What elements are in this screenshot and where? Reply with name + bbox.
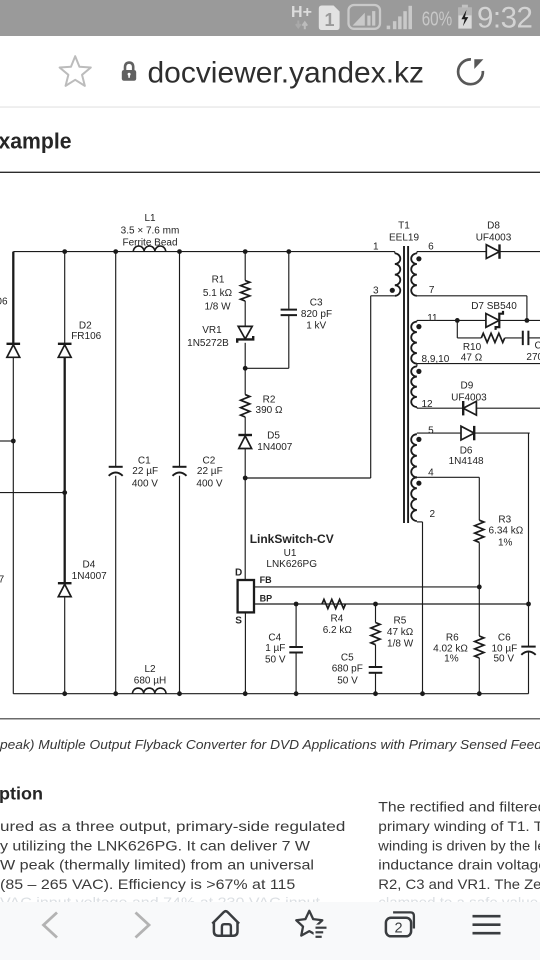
- svg-text:inductance drain voltage: inductance drain voltage: [378, 857, 540, 873]
- svg-text:1: 1: [324, 10, 334, 30]
- svg-text:docviewer.yandex.kz: docviewer.yandex.kz: [148, 57, 425, 90]
- svg-text:1/8 W: 1/8 W: [204, 302, 231, 313]
- svg-text:1: 1: [373, 241, 379, 252]
- svg-text:EEL19: EEL19: [389, 233, 419, 244]
- svg-text:3: 3: [373, 286, 379, 297]
- svg-text:C5: C5: [341, 653, 354, 664]
- svg-text:L2: L2: [144, 664, 156, 675]
- svg-text:1N4007: 1N4007: [257, 442, 292, 453]
- svg-text:U1: U1: [284, 548, 297, 559]
- svg-text:6.34 kΩ: 6.34 kΩ: [489, 526, 524, 537]
- svg-text:1%: 1%: [444, 654, 459, 665]
- svg-text:680 µH: 680 µH: [134, 676, 166, 687]
- svg-text:1/8 W: 1/8 W: [387, 639, 414, 650]
- svg-text:50 V: 50 V: [265, 654, 286, 665]
- svg-text:R2, C3 and VR1. The Zener: R2, C3 and VR1. The Zener: [378, 876, 540, 892]
- svg-text:1 kV: 1 kV: [306, 321, 326, 332]
- svg-text:1%: 1%: [498, 538, 513, 549]
- svg-text:T1: T1: [398, 220, 410, 231]
- svg-text:12: 12: [421, 399, 433, 410]
- svg-text:ption: ption: [0, 784, 43, 804]
- svg-text:R6: R6: [446, 633, 459, 644]
- svg-text:FR106: FR106: [71, 331, 101, 342]
- svg-text:BP: BP: [260, 594, 273, 604]
- svg-text:3.5 × 7.6 mm: 3.5 × 7.6 mm: [121, 225, 180, 236]
- svg-text:7: 7: [429, 285, 435, 296]
- svg-text:11: 11: [427, 313, 438, 324]
- svg-text:D6: D6: [460, 445, 473, 456]
- svg-text:H+: H+: [291, 4, 312, 21]
- svg-text:R5: R5: [394, 615, 407, 626]
- svg-text:680 pF: 680 pF: [332, 664, 363, 675]
- svg-text:R3: R3: [498, 515, 511, 526]
- svg-text:5.1 kΩ: 5.1 kΩ: [203, 288, 233, 299]
- svg-text:2: 2: [394, 920, 402, 936]
- svg-text:50 V: 50 V: [337, 675, 358, 686]
- svg-text:D9: D9: [461, 380, 474, 391]
- svg-text:6.2 kΩ: 6.2 kΩ: [323, 625, 353, 636]
- svg-text:S: S: [235, 615, 242, 626]
- svg-text:D7 SB540: D7 SB540: [471, 301, 517, 312]
- svg-text:R4: R4: [331, 614, 344, 625]
- svg-text:D2: D2: [79, 321, 92, 332]
- svg-text:C7: C7: [535, 340, 540, 351]
- svg-text:5: 5: [428, 425, 434, 436]
- svg-text:FR106: FR106: [0, 297, 8, 308]
- svg-text:primary winding of T1. The: primary winding of T1. The: [378, 818, 540, 834]
- svg-text:L1: L1: [144, 213, 156, 224]
- svg-text:xample: xample: [0, 128, 72, 153]
- svg-text:VR1: VR1: [202, 325, 222, 336]
- svg-text:9:32: 9:32: [477, 2, 532, 35]
- svg-text:D: D: [235, 567, 242, 578]
- svg-text:400 V: 400 V: [132, 478, 158, 489]
- svg-text:Ferrite Bead: Ferrite Bead: [122, 238, 177, 249]
- svg-text:R10: R10: [463, 342, 482, 353]
- svg-text:R1: R1: [212, 275, 225, 286]
- svg-text:47 Ω: 47 Ω: [461, 352, 483, 363]
- svg-text:8,9,10: 8,9,10: [421, 354, 449, 365]
- svg-text:W peak (thermally limited) fro: W peak (thermally limited) from an unive…: [0, 857, 314, 873]
- svg-text:ured as a three output, primar: ured as a three output, primary-side reg…: [0, 818, 345, 834]
- svg-text:390 Ω: 390 Ω: [256, 405, 283, 416]
- svg-text:50 V: 50 V: [494, 654, 515, 665]
- svg-text:The rectified and filtered: The rectified and filtered: [378, 799, 540, 815]
- svg-text:1N4007: 1N4007: [0, 575, 5, 586]
- svg-text:LinkSwitch-CV: LinkSwitch-CV: [250, 532, 334, 546]
- svg-text:R2: R2: [263, 394, 276, 405]
- svg-text:y utilizing the LNK626PG. It: y utilizing the LNK626PG. It can deliver…: [0, 837, 311, 853]
- svg-text:47 kΩ: 47 kΩ: [387, 627, 414, 638]
- svg-text:LNK626PG: LNK626PG: [266, 559, 317, 570]
- svg-text:peak) Multiple Output Flyback: peak) Multiple Output Flyback Converter …: [0, 738, 540, 752]
- svg-text:C6: C6: [498, 633, 511, 644]
- svg-text:1N4148: 1N4148: [449, 456, 484, 467]
- svg-text:FB: FB: [260, 575, 272, 585]
- svg-text:820 pF: 820 pF: [301, 309, 332, 320]
- svg-text:UF4003: UF4003: [476, 233, 512, 244]
- svg-text:1N4007: 1N4007: [72, 571, 107, 582]
- svg-text:60%: 60%: [422, 9, 453, 31]
- svg-text:270 pF: 270 pF: [526, 352, 540, 363]
- svg-text:D4: D4: [83, 559, 96, 570]
- svg-text:6: 6: [428, 241, 434, 252]
- svg-text:2: 2: [429, 509, 435, 520]
- svg-text:winding is driven by the leaka: winding is driven by the leakage: [377, 837, 540, 853]
- svg-text:C3: C3: [310, 298, 323, 309]
- svg-text:(85 – 265 VAC). Efficiency is: (85 – 265 VAC). Efficiency is >67% at 11…: [0, 876, 296, 892]
- svg-text:UF4003: UF4003: [451, 392, 487, 403]
- svg-text:1N5272B: 1N5272B: [187, 338, 229, 349]
- svg-text:1 µF: 1 µF: [265, 643, 285, 654]
- svg-text:400 V: 400 V: [196, 478, 222, 489]
- svg-text:4: 4: [428, 467, 434, 478]
- svg-text:22 µF: 22 µF: [132, 466, 158, 477]
- svg-text:D8: D8: [487, 220, 500, 231]
- svg-text:D5: D5: [267, 430, 280, 441]
- svg-text:22 µF: 22 µF: [197, 466, 223, 477]
